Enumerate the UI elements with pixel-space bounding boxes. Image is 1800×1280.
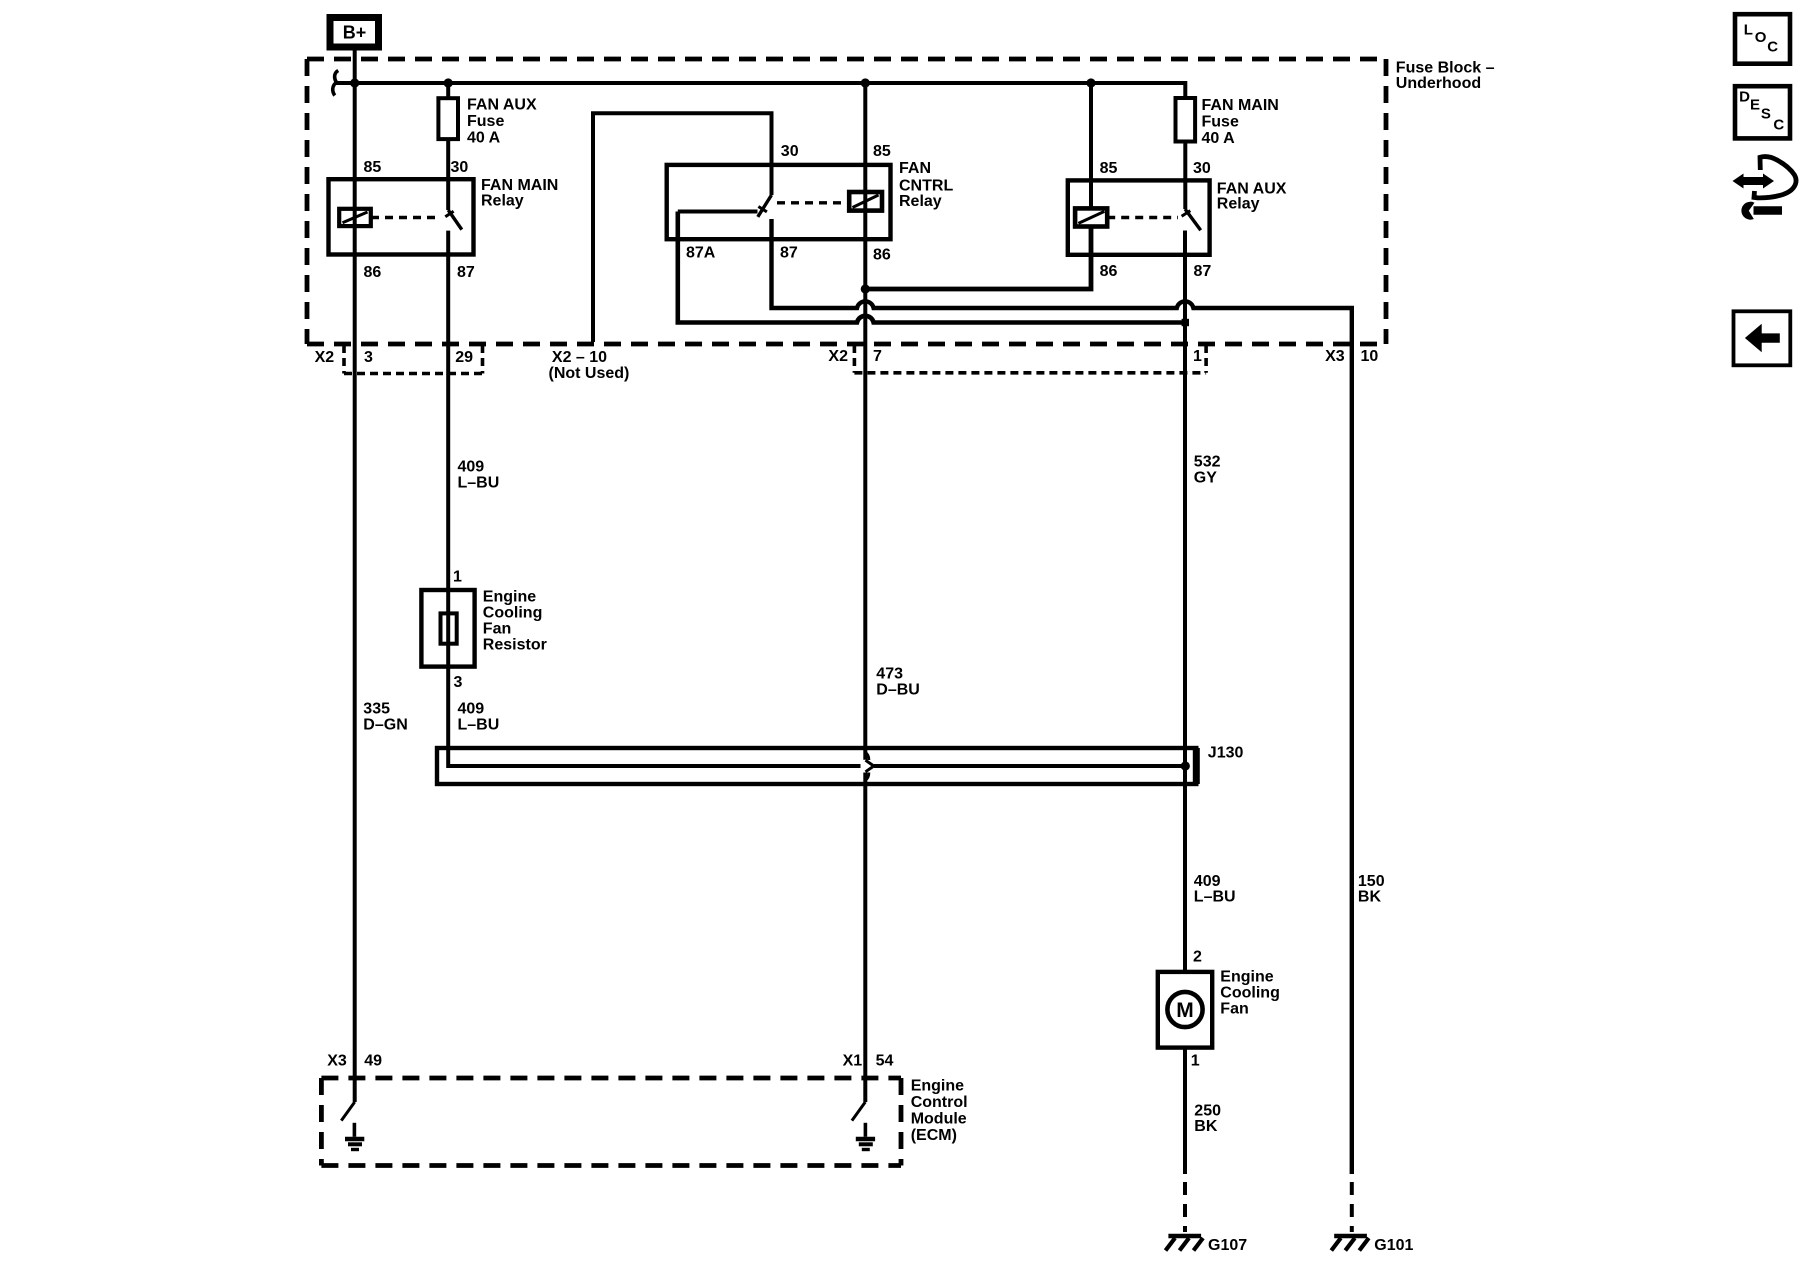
wire: 532 GY fan aux 87 down to motor: [1183, 231, 1187, 972]
svg-text:Fuse: Fuse: [467, 113, 504, 130]
svg-text:40 A: 40 A: [1202, 130, 1236, 147]
wire: main B+ bus: [334, 83, 1185, 98]
svg-text:L–BU: L–BU: [1194, 889, 1236, 906]
svg-text:87: 87: [780, 245, 798, 262]
relay FAN CNTRL switch blade: [758, 195, 772, 217]
svg-text:X1: X1: [843, 1053, 863, 1070]
svg-text:85: 85: [1100, 160, 1118, 177]
svg-text:M: M: [1176, 999, 1194, 1022]
ECM dashed box: [321, 1078, 901, 1166]
svg-text:Control: Control: [911, 1094, 968, 1111]
svg-text:30: 30: [1193, 160, 1211, 177]
svg-text:X2: X2: [828, 348, 848, 365]
svg-text:2: 2: [1193, 949, 1202, 966]
svg-text:X3: X3: [1325, 348, 1345, 365]
svg-text:10: 10: [1361, 348, 1379, 365]
svg-text:L–BU: L–BU: [458, 475, 500, 492]
svg-text:30: 30: [451, 159, 469, 176]
wire: X2-10 loop from fan cntrl 30: [593, 113, 772, 342]
svg-text:40 A: 40 A: [467, 130, 501, 147]
node: bus junction at B+: [350, 78, 359, 87]
wire: 150 BK dashed to G101: [1350, 1182, 1354, 1232]
svg-text:CNTRL: CNTRL: [899, 178, 953, 195]
svg-text:473: 473: [876, 666, 903, 683]
svg-text:Fan: Fan: [1220, 1001, 1248, 1018]
relay FAN AUX box: [1068, 180, 1210, 254]
svg-text:86: 86: [873, 247, 891, 264]
svg-text:Engine: Engine: [483, 589, 536, 606]
relay FAN AUX actuator dashes: [1107, 216, 1178, 219]
relay FAN MAIN actuator dashes: [371, 216, 441, 219]
svg-text:Resistor: Resistor: [483, 637, 547, 654]
wire: 335 D-GN from B+ through coil to ECM X3-49: [353, 83, 357, 1102]
svg-text:Fuse: Fuse: [1202, 114, 1239, 131]
svg-text:54: 54: [876, 1053, 894, 1070]
wire: 409 L-BU fan main 87 down through resistor to J130: [448, 231, 860, 766]
svg-text:FAN AUX: FAN AUX: [467, 97, 537, 114]
wire: B+ drop to bus: [353, 50, 357, 83]
wire: fan cntrl 87A contact: [678, 210, 758, 214]
svg-text:87: 87: [1194, 263, 1212, 280]
svg-text:335: 335: [363, 701, 390, 718]
wire: fan aux 85 from bus: [1089, 83, 1093, 208]
svg-text:Relay: Relay: [1217, 196, 1260, 213]
svg-text:L: L: [1744, 21, 1753, 38]
svg-text:86: 86: [1100, 263, 1118, 280]
svg-text:BK: BK: [1194, 1118, 1218, 1135]
node: bus junction at fan aux relay 85: [1086, 78, 1095, 87]
svg-text:409: 409: [1194, 873, 1221, 890]
relay FAN AUX switch blade: [1185, 209, 1201, 230]
relay FAN CNTRL actuator dashes: [777, 201, 849, 204]
svg-text:B+: B+: [343, 23, 367, 43]
svg-text:Module: Module: [911, 1111, 967, 1128]
svg-text:85: 85: [364, 159, 382, 176]
svg-text:(ECM): (ECM): [911, 1127, 957, 1144]
svg-text:Underhood: Underhood: [1396, 75, 1481, 92]
svg-text:87A: 87A: [686, 245, 716, 262]
svg-text:Cooling: Cooling: [483, 605, 543, 622]
relay FAN AUX coil: [1075, 208, 1107, 226]
svg-text:3: 3: [454, 674, 463, 691]
svg-text:Engine: Engine: [911, 1078, 964, 1095]
svg-text:3: 3: [364, 349, 373, 366]
svg-text:X3: X3: [327, 1053, 347, 1070]
icon service arrows and wrench: [1733, 157, 1797, 220]
svg-text:532: 532: [1194, 454, 1221, 471]
wire continuation curl symbol: [333, 71, 338, 96]
svg-text:409: 409: [458, 701, 485, 718]
svg-text:87: 87: [457, 264, 475, 281]
ECM internal ground right: [852, 1102, 865, 1121]
svg-text:86: 86: [364, 264, 382, 281]
wire: J130 middle continuation with arrow: [874, 764, 1185, 768]
svg-text:D–GN: D–GN: [363, 717, 407, 734]
svg-text:J130: J130: [1208, 745, 1244, 762]
svg-text:O: O: [1755, 29, 1767, 46]
svg-text:Engine: Engine: [1220, 969, 1273, 986]
svg-text:150: 150: [1358, 873, 1385, 890]
svg-text:250: 250: [1194, 1103, 1221, 1120]
svg-text:49: 49: [364, 1053, 382, 1070]
relay FAN CNTRL box: [667, 165, 891, 239]
svg-text:G107: G107: [1208, 1237, 1247, 1254]
wire: 250 BK motor to G107: [1183, 1048, 1187, 1174]
node: bus junction at fan aux fuse: [444, 78, 453, 87]
svg-text:FAN MAIN: FAN MAIN: [1202, 97, 1279, 114]
ECM internal ground left: [341, 1102, 354, 1121]
connector X2 left dashed box: [344, 345, 483, 374]
wire: X2-7 473 D-BU from fan cntrl 86 to ECM X1-54: [863, 83, 867, 760]
svg-text:Fan: Fan: [483, 621, 511, 638]
relay FAN MAIN switch blade: [448, 210, 462, 230]
fuse FAN AUX 40A: [446, 83, 450, 98]
svg-text:C: C: [1773, 117, 1784, 134]
svg-text:85: 85: [873, 143, 891, 160]
svg-text:Relay: Relay: [899, 193, 942, 210]
svg-text:FAN MAIN: FAN MAIN: [481, 177, 558, 194]
svg-text:7: 7: [873, 348, 882, 365]
icon LOC box: [1735, 14, 1790, 64]
splice J130 box: [437, 748, 1196, 784]
svg-text:GY: GY: [1194, 470, 1217, 487]
svg-text:(Not Used): (Not Used): [549, 365, 630, 382]
node: bus junction at fan cntrl relay 85: [861, 78, 870, 87]
svg-text:BK: BK: [1358, 889, 1382, 906]
icon DESC box: [1735, 86, 1790, 138]
svg-text:1: 1: [1191, 1053, 1200, 1070]
fuse block underhood dashed box: [307, 59, 1386, 344]
wire: fan cntrl 87A to junction with fan aux 87: [678, 212, 1183, 323]
svg-text:S: S: [1761, 106, 1771, 123]
svg-text:30: 30: [781, 143, 799, 160]
node: square junction 87A / fan aux 87: [1182, 319, 1189, 326]
svg-text:29: 29: [455, 349, 473, 366]
svg-text:L–BU: L–BU: [458, 717, 500, 734]
relay FAN CNTRL coil: [849, 192, 882, 211]
svg-text:G101: G101: [1374, 1237, 1413, 1254]
fuse FAN MAIN 40A: [1176, 98, 1196, 142]
wire: fan cntrl 87 to X3-10 (150 BK): [772, 219, 1352, 1174]
svg-text:X2 – 10: X2 – 10: [552, 349, 607, 366]
battery feed B+: [330, 18, 379, 48]
svg-text:409: 409: [458, 459, 485, 476]
svg-text:Relay: Relay: [481, 193, 524, 210]
svg-text:1: 1: [453, 569, 462, 586]
node: junction fan cntrl 86 / fan aux 86: [861, 284, 870, 293]
svg-text:C: C: [1767, 39, 1778, 56]
svg-text:D–BU: D–BU: [876, 682, 920, 699]
svg-text:FAN: FAN: [899, 160, 931, 177]
svg-text:X2: X2: [315, 349, 335, 366]
svg-text:D: D: [1739, 89, 1750, 106]
ground G107: [1168, 1234, 1201, 1239]
relay FAN MAIN coil: [339, 209, 371, 226]
wire: fan aux 86 link: [865, 227, 1091, 290]
svg-text:E: E: [1750, 96, 1760, 113]
icon back arrow box: [1734, 311, 1791, 365]
ground G101: [1334, 1234, 1367, 1239]
connector X2 middle dashed box: [854, 345, 1206, 373]
svg-text:1: 1: [1193, 348, 1202, 365]
svg-text:Cooling: Cooling: [1220, 985, 1280, 1002]
relay FAN MAIN box: [329, 179, 474, 254]
node: J130 junction to 409 L-BU: [1181, 761, 1190, 770]
